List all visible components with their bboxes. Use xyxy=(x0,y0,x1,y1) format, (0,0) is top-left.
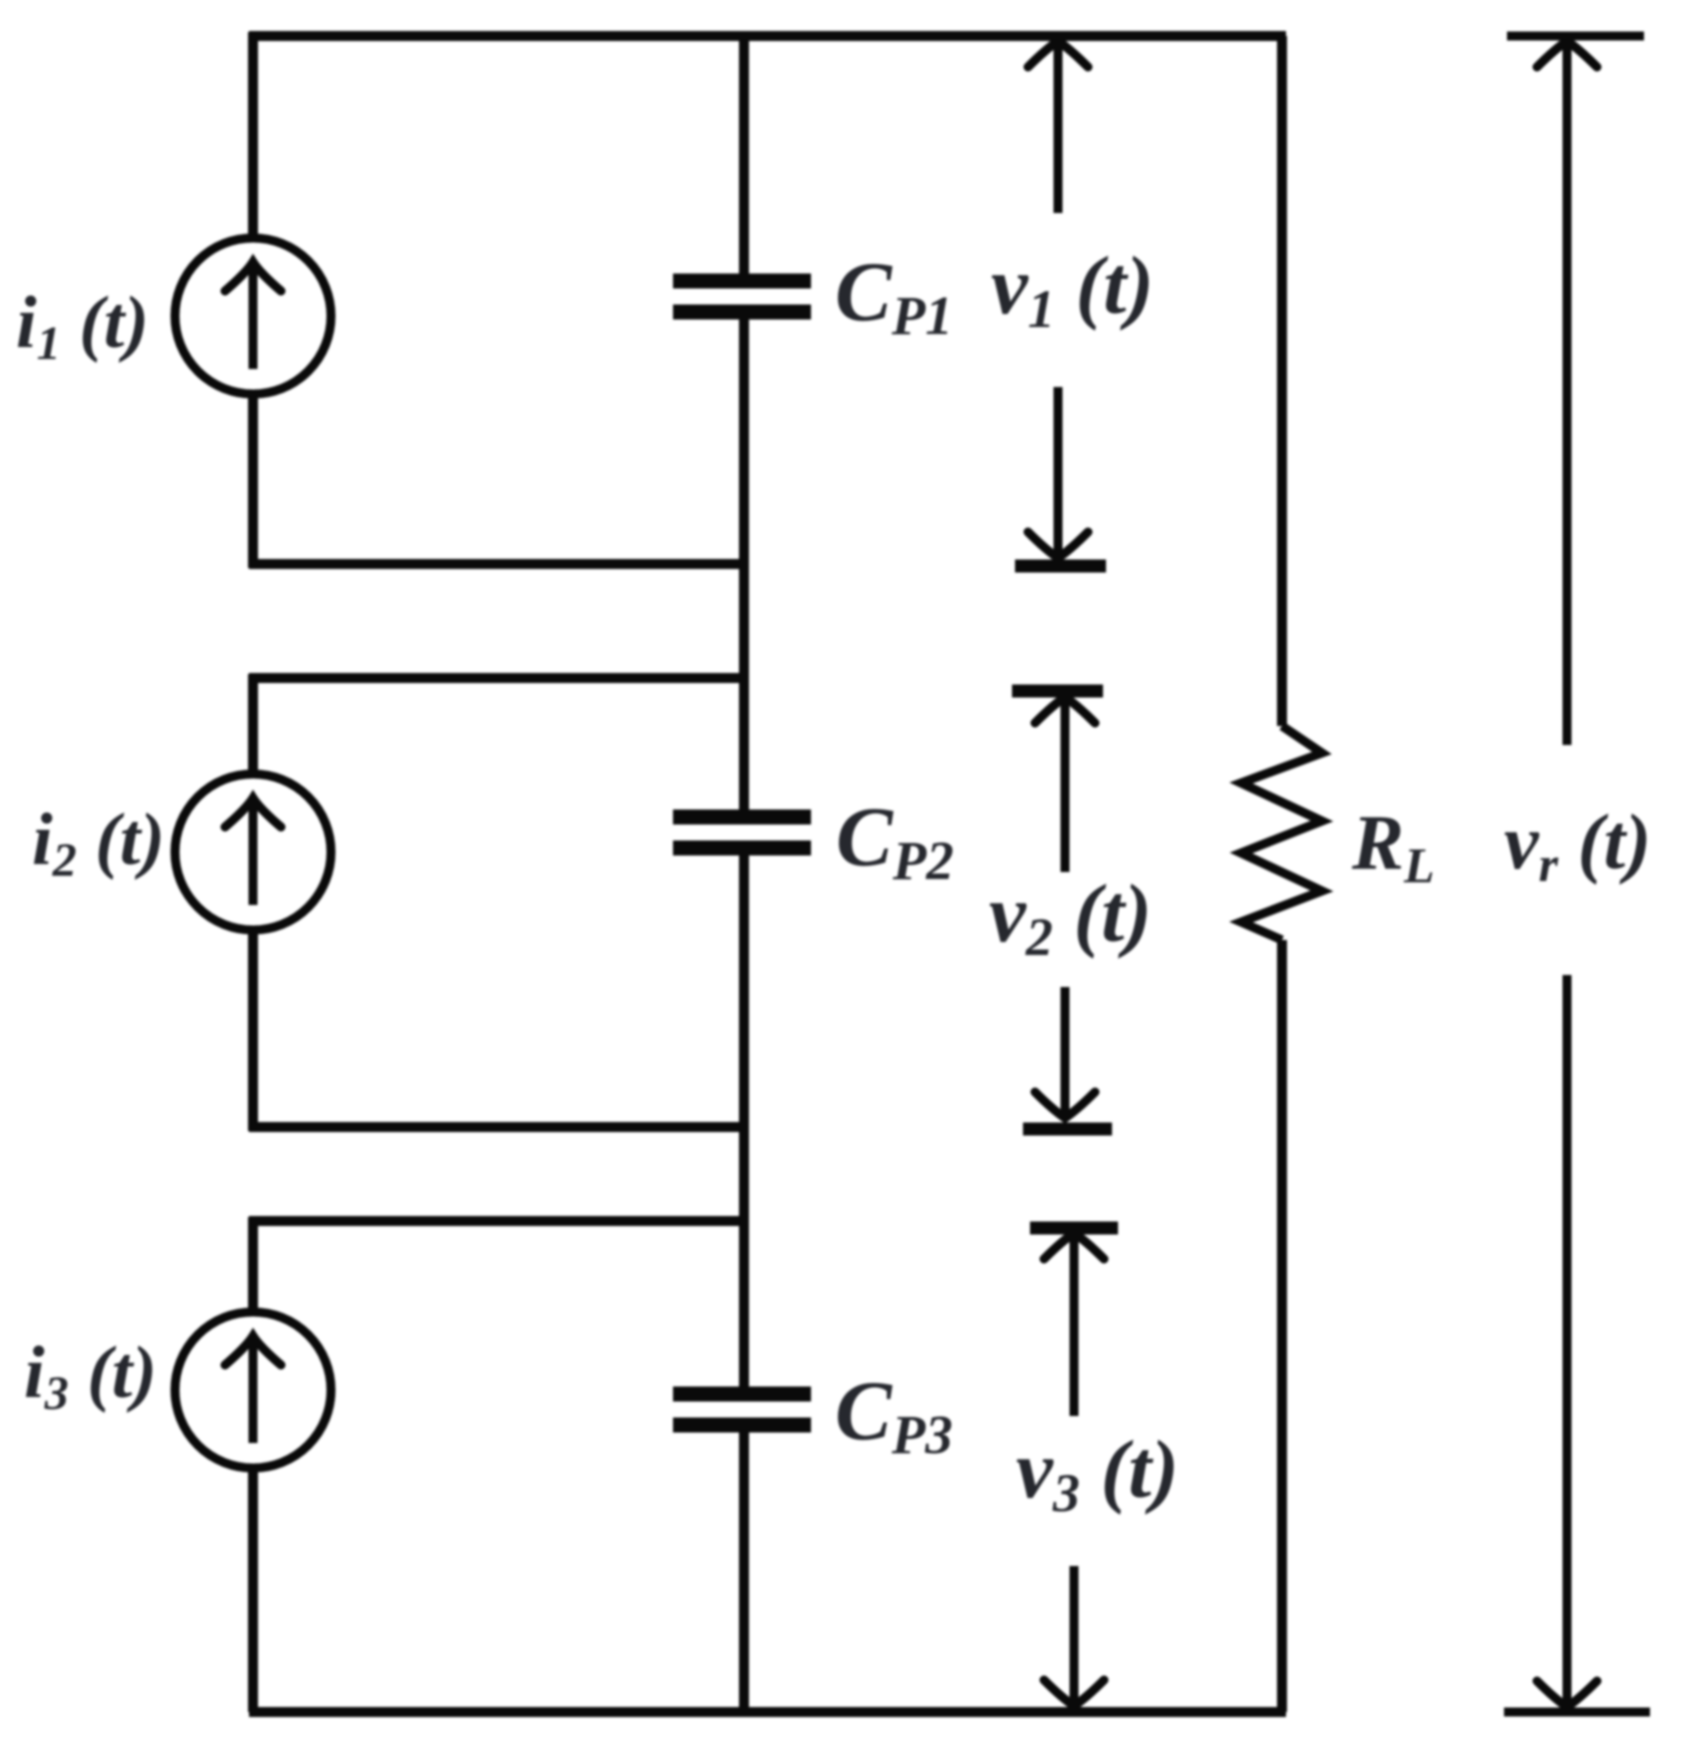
svg-text:i1 (t): i1 (t) xyxy=(16,282,149,370)
svg-text:CP2: CP2 xyxy=(836,790,954,891)
svg-text:v2 (t): v2 (t) xyxy=(989,867,1152,967)
svg-text:CP1: CP1 xyxy=(835,245,953,346)
svg-text:v3 (t): v3 (t) xyxy=(1016,1423,1179,1523)
svg-text:RL: RL xyxy=(1351,799,1435,893)
svg-text:CP3: CP3 xyxy=(835,1364,953,1465)
svg-text:i3 (t): i3 (t) xyxy=(24,1332,157,1420)
svg-text:v1 (t): v1 (t) xyxy=(991,239,1154,339)
svg-text:i2 (t): i2 (t) xyxy=(32,799,165,887)
svg-text:vr (t): vr (t) xyxy=(1504,798,1651,892)
